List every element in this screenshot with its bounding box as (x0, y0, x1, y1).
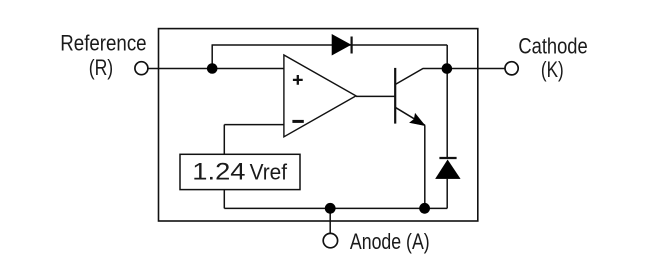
transistor Q1 emitter (395, 107, 425, 125)
wire top diode branch (212, 44, 448, 46)
wire K output (447, 68, 505, 70)
wire R node up (211, 45, 213, 69)
Vref box (180, 154, 300, 189)
terminal K circle (505, 62, 518, 75)
node R junction (207, 63, 218, 74)
node emitter junction (419, 203, 430, 214)
op-amp U1 triangle (284, 55, 356, 137)
terminal A circle (323, 233, 337, 247)
svg-text:(K): (K) (541, 57, 564, 82)
wire base (356, 95, 395, 97)
transistor Q1 collector (395, 69, 447, 85)
terminal R circle (135, 62, 148, 75)
svg-text:Cathode: Cathode (518, 34, 587, 59)
wire D2 anode down (446, 179, 448, 209)
svg-text:Vref: Vref (250, 160, 288, 185)
diode D2 cathode bar (439, 157, 456, 159)
wire Vref to anode rail (223, 190, 225, 209)
wire anode rail (224, 207, 447, 209)
wire anode stub (329, 208, 331, 233)
op-amp minus sign (292, 120, 303, 123)
svg-text:Anode (A): Anode (A) (350, 229, 430, 254)
wire R input (148, 68, 284, 70)
wire minus input down to Vref (223, 125, 225, 155)
svg-text:Reference: Reference (60, 31, 146, 56)
svg-text:(R): (R) (89, 55, 114, 80)
diode D2 (pointing up) (436, 160, 460, 179)
wire K node down (446, 69, 448, 159)
diode D1 top (anode left) (332, 35, 351, 56)
diode D1 cathode bar (351, 37, 353, 54)
IC outline box (159, 29, 478, 221)
wire minus input (224, 124, 284, 126)
op-amp plus sign (293, 75, 303, 85)
transistor Q1 emitter arrow (410, 114, 425, 126)
node K junction (442, 63, 453, 74)
transistor Q1 base bar (394, 68, 396, 124)
svg-text:1.24: 1.24 (192, 159, 245, 186)
wire top branch down to K (446, 45, 448, 69)
wire emitter down (424, 125, 426, 208)
node anode junction (325, 203, 336, 214)
